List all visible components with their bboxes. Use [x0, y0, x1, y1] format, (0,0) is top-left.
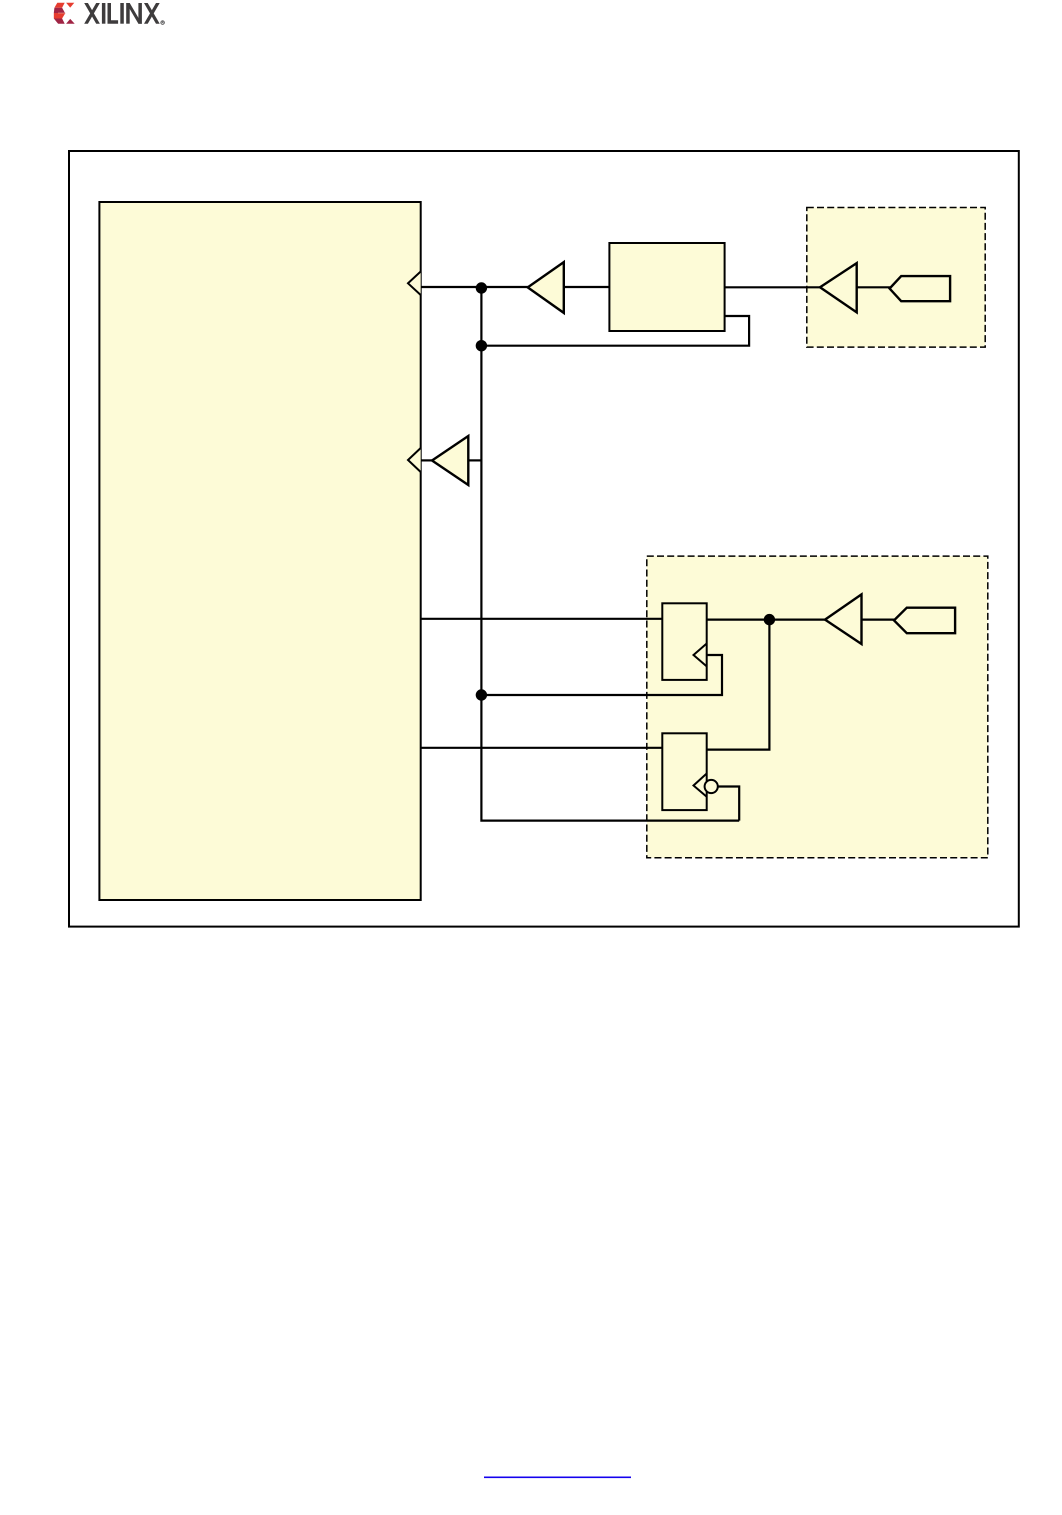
IBUFG U3 (clock input buffer): [820, 263, 857, 312]
buffer U4 (clock buffer to block): [432, 436, 468, 485]
clock input notch 1 on block: [408, 272, 421, 296]
Xilinx logo text: [84, 3, 160, 24]
wire: buffer U4 output to clock bus: [468, 459, 481, 461]
clock input notch 2 on block: [408, 448, 421, 472]
hyperlink underline: [484, 1477, 631, 1479]
flip-flop FF2 (falling edge input register): [662, 733, 706, 810]
junction dot on clock net: [476, 282, 487, 293]
IOB dashed box (data input, bottom right): [647, 556, 988, 858]
wire: IBUF U5 input from data pad: [862, 618, 895, 620]
Xilinx logo mark: [54, 3, 75, 24]
junction dot on FF1 clock tap: [476, 689, 487, 700]
wire: FF1 clock from bus: [481, 655, 722, 695]
wire: buffer U4 input stub: [421, 459, 433, 461]
DCM block U1: [609, 243, 724, 331]
buffer U2 (global clock buffer): [528, 262, 564, 313]
wire: FF1 D input from block: [421, 618, 663, 620]
wire: FF2 inverted clock: [718, 787, 739, 821]
FF2 clock chevron: [694, 774, 707, 797]
wire: vertical clock bus: [481, 287, 739, 821]
flip-flop FF1 (rising edge input register): [662, 603, 706, 680]
IBUF U5 (data input buffer): [825, 594, 862, 644]
data pad P2: [894, 608, 955, 634]
IOB dashed box (clock input, top right): [807, 208, 985, 348]
FF2 clock inversion bubble: [705, 780, 718, 793]
junction dot on feedback net: [476, 340, 487, 351]
clock pad P1: [890, 276, 951, 301]
wire: clock net from block to buffer U2: [421, 286, 529, 288]
wire: FF2 D input from block: [421, 747, 663, 749]
registered trademark symbol: [161, 21, 165, 25]
figure frame: [69, 151, 1019, 927]
block: FPGA logic array: [99, 202, 420, 900]
wire: DCM input from IBUFG U3: [725, 286, 821, 288]
junction dot on data node: [764, 614, 775, 625]
wire: buffer U2 output to DCM: [564, 286, 610, 288]
FF1 clock chevron: [694, 644, 707, 667]
wire: DCM feedback path: [481, 316, 749, 346]
wire: IBUFG U3 input from clock pad: [857, 286, 891, 288]
wire: FF1 Q node to IBUF U5: [707, 618, 826, 620]
wire: node to FF2 clock side: [707, 620, 770, 750]
